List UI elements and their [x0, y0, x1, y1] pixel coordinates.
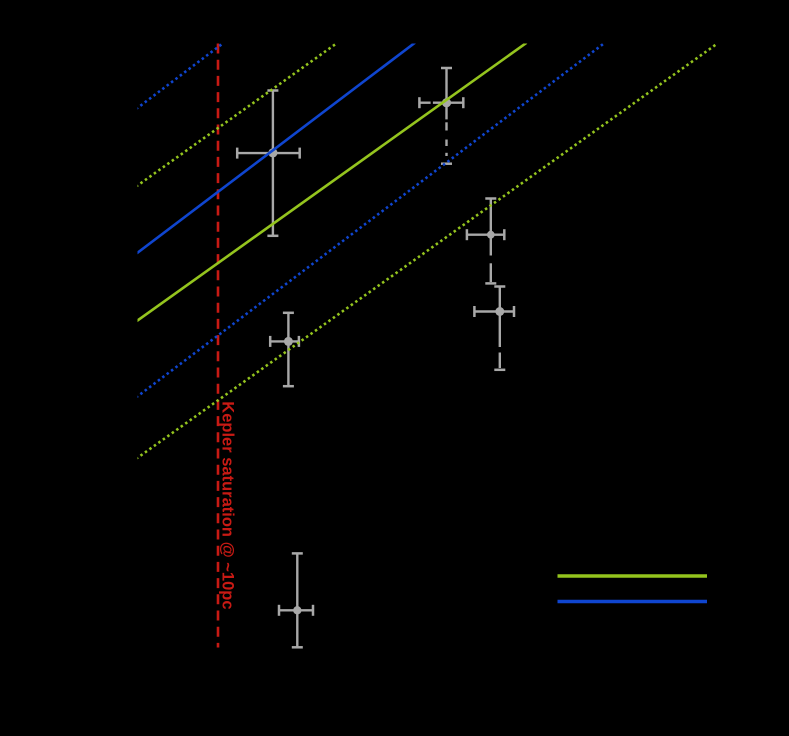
svg-text:Kepler saturation @ ~10pc: Kepler saturation @ ~10pc	[219, 401, 237, 609]
